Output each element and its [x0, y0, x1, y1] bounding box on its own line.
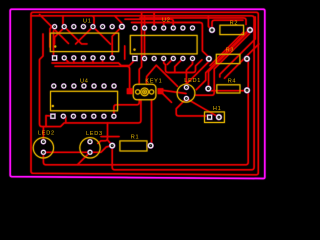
resistor R1 outline: [120, 141, 147, 151]
svg-text:R4: R4: [228, 79, 237, 85]
wire: U2 pad4 L-path below: [164, 59, 202, 73]
op-amp U2 pads bottom row (pin1 square): [132, 56, 138, 62]
svg-text:R1: R1: [131, 134, 140, 140]
wire: red copper traces: [31, 12, 259, 175]
svg-text:U2: U2: [162, 18, 171, 24]
wire: U1 left inner vertical: [53, 31, 55, 55]
resistor R4 pads: [205, 85, 212, 92]
wire: LED3 bottom to R1 left pad: [90, 146, 112, 153]
wire: feed from top line into R2 left pad: [208, 16, 211, 30]
wire: via feed from top: [115, 16, 122, 27]
wire: U1 inner diagonal a: [64, 27, 87, 44]
wire: diagonal bundle f: [210, 32, 244, 66]
wire: top horizontal y18 to R2 loop: [140, 18, 246, 25]
wire: diagonal below U1 pad2: [55, 28, 64, 44]
wire: KEY1 right pad diagonal toward LED1: [163, 94, 172, 103]
op-amp U1 outline: [50, 33, 118, 52]
key KEY1 center bullseye: [141, 88, 149, 96]
wire: LED1 bottom pad diagonal to H1 square pad: [176, 99, 209, 116]
wire: LED1 bottom pad diagonal to H1 round pad: [186, 99, 219, 118]
pads: [40, 23, 253, 155]
op-amp U1 pads bottom row (pin1 square): [52, 55, 58, 61]
silkscreen yellow layer: [33, 25, 243, 158]
wire: long diagonal top-left into U1: [40, 15, 69, 44]
resistor R2 pads: [209, 27, 216, 34]
svg-text:LED2: LED2: [38, 131, 55, 137]
wire: U2 horizontal above pads down to R3 left pad: [132, 23, 208, 59]
wire: vertical through U2 body jogging into KEY1 top: [139, 12, 141, 84]
svg-text:R3: R3: [226, 48, 235, 54]
U2 pin1 dot: [133, 49, 135, 51]
wire: diagonal bundle c with corner down toward H1: [195, 33, 250, 95]
LED3 pads: [87, 139, 93, 145]
wire: drop to U2 pad2: [144, 16, 146, 28]
op-amp U1 pads top row: [52, 24, 58, 30]
LED1 pads: [183, 84, 189, 90]
wire: R3 left pad diagonal to LED1 top pad: [186, 59, 209, 88]
wire: diagonal bundle d: [220, 17, 255, 77]
wire: R1 left pad feed from above: [98, 123, 108, 143]
U1 pin1 dot: [54, 45, 56, 47]
wire: tent trace over KEY1 label toward LED1: [147, 65, 178, 86]
wire: drop to U1 pad2: [62, 16, 64, 25]
wire: U1 bottom bus 1 into U2 square pad: [52, 61, 134, 65]
wire: y19 horizontal corner down to U2 pad5: [125, 19, 173, 28]
LED2 outline: [33, 138, 53, 158]
op-amp U2 outline: [130, 35, 197, 54]
svg-text:H1: H1: [213, 106, 222, 112]
resistor R3 outline: [216, 54, 240, 63]
LED3 outline: [80, 138, 100, 158]
key KEY1 right ring: [149, 90, 153, 94]
wire: third nested trace bottom-right up to R3 right pad: [46, 59, 248, 165]
wire: jog from second line down to U1 pad5: [92, 16, 95, 27]
wire: short vertical right of U1: [124, 46, 126, 59]
wire: diagonal bundle e: [225, 44, 259, 78]
key KEY1 left ring: [136, 90, 140, 94]
wire: diagonal into vertical left of U1: [50, 26, 53, 47]
key KEY1 red pad right: [158, 88, 164, 94]
resistor R4 outline: [217, 85, 240, 93]
via near U1: [119, 23, 126, 30]
LED2 pads: [40, 139, 46, 145]
wire: LED3 bottom diagonal to bottom bus: [77, 152, 90, 165]
op-amp U4 pads top row: [51, 83, 57, 89]
wire: R4 left pad horizontal under body: [208, 90, 247, 92]
keepout border (magenta board outline): [10, 9, 265, 178]
resistor R2 outline: [220, 25, 244, 34]
wire: trace over R2 from left pad: [212, 20, 243, 30]
wire: diagonal into R1 left pad: [108, 140, 113, 146]
connector H1 outline: [205, 112, 225, 123]
wire: U2 pad7 to LED1 top pad: [186, 59, 192, 88]
wire: KEY1 right pad down to R1 right pad: [150, 100, 153, 146]
wire: U1 inner diagonal c: [93, 27, 111, 44]
op-amp U2 pads top row: [132, 25, 138, 31]
wire: drop to U2 pad3: [153, 12, 155, 28]
wire: KEY1 right pad line to LED1: [163, 90, 186, 93]
op-amp U4 outline: [51, 91, 118, 111]
wire: second top horizontal to right side down to bottom and R1: [32, 16, 255, 170]
svg-text:KEY1: KEY1: [145, 79, 162, 85]
wire: U2 pad2 column through body: [144, 28, 146, 59]
svg-text:U4: U4: [80, 78, 89, 84]
op-amp U4 pads bottom row (pin1 square): [50, 113, 56, 119]
resistor R3 pads: [206, 55, 213, 62]
wire: U1 bottom bus 2 to KEY1 left red pad: [55, 66, 130, 89]
wire: left second vertical down to U4 area: [40, 34, 141, 127]
svg-text:R2: R2: [230, 20, 239, 26]
wire: riser to U4 pin1: [46, 116, 53, 127]
wire: U2 pad6 diagonal down-left: [175, 59, 183, 73]
U4 pin1 dot: [52, 105, 54, 107]
svg-text:U1: U1: [83, 18, 92, 24]
key KEY1 outline: [133, 84, 156, 100]
svg-text:LED1: LED1: [184, 78, 201, 84]
wire: stub under LED3 label: [101, 136, 119, 138]
resistor R1 pads: [109, 142, 116, 149]
wire: diagonal bundle b: [196, 28, 247, 90]
wire: U1 bottom pad drops: [64, 58, 102, 63]
key KEY1 red pad left: [127, 88, 133, 94]
wire: U1 inner diagonal b crossing: [76, 27, 93, 44]
wire: drop to U2 pad4: [163, 23, 165, 29]
wire: inner loop trace following board edge: [31, 12, 258, 175]
wire: R2 right pad diagonal bundle a to R4 left pad: [209, 30, 251, 89]
wire: via diagonal into U1 pad7 column: [112, 27, 122, 58]
wire: LED2 top pad riser: [42, 127, 44, 142]
LED1 outline: [177, 84, 195, 102]
connector H1 pads (pin1 square): [207, 114, 213, 120]
wire: LED2 bottom to LED3 bottom: [43, 151, 90, 153]
wire: U2 pad5 diagonal onto L-path: [167, 59, 173, 65]
wire: KEY1 bottom left trace to U4 pad7: [114, 100, 139, 117]
svg-text:LED3: LED3: [86, 131, 103, 137]
wire: LED2 bottom down to nested trace: [43, 152, 46, 165]
wire: U4 pad2 stub down: [65, 117, 67, 123]
